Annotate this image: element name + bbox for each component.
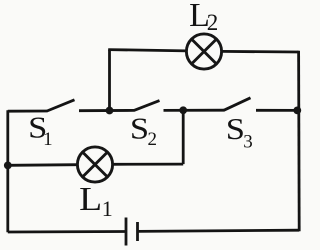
wire top branch left segment: [108, 50, 187, 51]
svg-text:2: 2: [207, 10, 219, 35]
switch S3 blade: [224, 98, 251, 110]
lamp L2: [186, 34, 221, 69]
svg-text:2: 2: [148, 129, 158, 150]
svg-text:S: S: [226, 111, 245, 146]
junction node: L1 branch / middle bus: [179, 106, 187, 114]
svg-text:S: S: [130, 111, 149, 146]
wire lamp L1 branch: left segment: [8, 163, 78, 166]
battery cell: long plate: [125, 218, 128, 246]
svg-text:3: 3: [243, 132, 253, 153]
wire middle bus: left corner to S1 hinge: [8, 110, 48, 113]
wire right vertical: [297, 51, 300, 232]
lamp L1: [77, 147, 112, 182]
switch S2 blade: [134, 101, 160, 111]
wire bottom left segment (left corner to battery): [8, 230, 126, 233]
wire lamp L1 branch: vertical up to middle bus: [182, 110, 185, 164]
battery cell: short plate: [136, 222, 139, 241]
wire left vertical: [6, 110, 9, 232]
wire S3 contact to right vertical: [256, 109, 299, 112]
svg-text:1: 1: [43, 129, 53, 150]
junction node: S3 contact / right vertical: [293, 107, 301, 115]
wire S2 contact to S3 hinge: [164, 109, 225, 112]
wire lamp L1 branch: right segment: [112, 163, 183, 166]
wire top branch right segment: [221, 50, 299, 53]
switch S1 blade: [47, 100, 75, 111]
wire S1 contact to S2 hinge: [79, 109, 135, 112]
svg-text:L: L: [79, 181, 102, 218]
wire bottom right segment (battery to right corner): [138, 230, 300, 231]
svg-text:1: 1: [102, 196, 113, 221]
junction node: riser / middle bus: [106, 107, 114, 115]
junction node: L1 branch / left vertical: [4, 162, 12, 170]
wire riser from middle bus up to top branch: [108, 50, 111, 111]
